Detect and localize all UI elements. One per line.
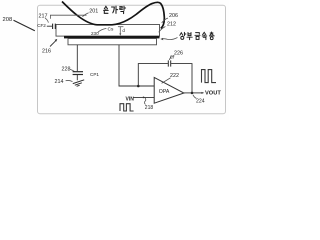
- output node junction: [191, 92, 194, 95]
- gap dimension d: [118, 26, 124, 28]
- capacitor CF2: [47, 25, 52, 27]
- svg-text:212: 212: [167, 22, 176, 28]
- svg-text:218: 218: [145, 105, 154, 111]
- hangul 금: [195, 33, 200, 40]
- capacitor CP1: [73, 71, 83, 73]
- svg-text:222: 222: [170, 73, 179, 79]
- upper metal layer 212: [64, 36, 160, 39]
- svg-text:CF2: CF2: [37, 23, 46, 28]
- leader from 230 to Cs: [98, 28, 107, 32]
- leader curl from 217: [45, 18, 48, 22]
- hangul 상: [180, 32, 186, 39]
- svg-text:224: 224: [196, 99, 205, 105]
- hangul 속: [202, 32, 207, 39]
- leader 206: [162, 18, 168, 23]
- svg-text:d: d: [122, 28, 125, 33]
- output arrow to VOUT: [192, 92, 203, 94]
- ground 214: [73, 80, 84, 87]
- capacitor Cf: [167, 60, 169, 66]
- wire plate to CP1: [76, 45, 78, 71]
- protect layer slab 206: [56, 25, 160, 37]
- VIN wire with arrow: [133, 96, 154, 98]
- wire plate to op-amp input: [119, 45, 154, 86]
- hangul 부: [187, 33, 192, 40]
- wire from finger to CF2: [50, 15, 86, 19]
- VOUT square wave: [202, 70, 217, 83]
- leader from 208 to frame: [14, 20, 35, 31]
- svg-text:214: 214: [55, 79, 64, 85]
- leader 222: [162, 78, 171, 84]
- svg-text:CP1: CP1: [90, 72, 99, 77]
- svg-text:226: 226: [174, 50, 183, 56]
- svg-text:OPA: OPA: [159, 89, 170, 95]
- leader 214: [66, 80, 73, 81]
- svg-text:VOUT: VOUT: [205, 90, 221, 96]
- leader 226: [169, 56, 174, 60]
- output wire from op-amp: [184, 92, 192, 94]
- feedback wire to output: [171, 64, 192, 93]
- hangul 가: [112, 6, 118, 13]
- hangul 락: [120, 6, 126, 13]
- VIN square wave: [120, 104, 134, 111]
- leader with arrow: [162, 38, 178, 40]
- hangul 층: [209, 32, 214, 40]
- leader 224: [193, 95, 196, 99]
- finger contour 201: [62, 2, 164, 29]
- wire CP1 to ground: [76, 75, 78, 80]
- svg-text:216: 216: [42, 48, 51, 54]
- svg-text:206: 206: [169, 13, 178, 19]
- svg-text:VIN: VIN: [126, 97, 135, 103]
- lower substrate slab: [68, 39, 157, 45]
- op-amp OPA: [154, 77, 184, 103]
- leader squiggle 218: [144, 98, 145, 105]
- feedback wire up and across: [138, 64, 168, 86]
- border frame of pixel block 208: [38, 5, 226, 114]
- svg-text:208: 208: [3, 17, 13, 23]
- svg-text:228: 228: [62, 67, 71, 73]
- hangul 손: [104, 6, 109, 13]
- arrow 216 to metal layer: [50, 40, 56, 46]
- leader 212: [159, 27, 166, 33]
- svg-text:201: 201: [89, 8, 98, 14]
- leader 228: [70, 69, 75, 71]
- node junction input: [137, 85, 140, 88]
- svg-text:Cs: Cs: [108, 27, 114, 33]
